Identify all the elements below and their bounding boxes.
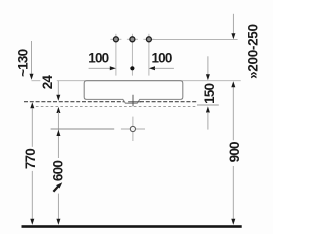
- drain crosshair vertical: [132, 117, 134, 141]
- svg-text:»200-250: »200-250: [245, 24, 260, 79]
- svg-text:770: 770: [23, 149, 38, 169]
- dimension 150 upper arrowhead: [206, 74, 210, 80]
- dimension 24 lower arrowhead: [56, 107, 60, 113]
- dimension ~130 shaft: [31, 41, 33, 75]
- svg-text:900: 900: [227, 142, 242, 162]
- dimension 770 shaft lower: [31, 171, 33, 220]
- dimension 100 right arrowhead: [149, 66, 155, 70]
- svg-text:100: 100: [88, 51, 108, 66]
- faucet hole centerline right: [148, 34, 150, 76]
- dimension 150 lower shaft: [207, 112, 209, 130]
- faucet level line: [152, 38, 238, 40]
- dimension 100 left arrowhead: [110, 66, 116, 70]
- dimension 150 upper shaft: [207, 56, 209, 74]
- adjustable height arrow symbol: [53, 187, 58, 192]
- drain circle: [130, 126, 135, 131]
- faucet hole circle middle: [130, 37, 135, 42]
- drain leader line: [51, 128, 115, 130]
- dimension 600 shaft: [57, 112, 59, 158]
- svg-text:24: 24: [40, 75, 55, 90]
- faucet hole centerline left: [115, 34, 117, 76]
- dimension 150 lower arrowhead: [206, 106, 210, 112]
- dimension 100 left shaft: [89, 67, 111, 69]
- dimension 900 shaft lower: [232, 166, 234, 220]
- countertop hidden line (long dashes): [24, 101, 197, 103]
- dimension 900 upper arrowhead: [231, 81, 235, 87]
- faucet hole cross tick left: [110, 38, 121, 40]
- dimension 770 upper arrowhead: [30, 102, 34, 108]
- rim reference line right part: [57, 80, 241, 82]
- dimension 150 bottom tick: [197, 104, 219, 106]
- dimension 200-250 shaft: [232, 14, 234, 34]
- washbasin profile outline: [84, 81, 183, 104]
- basin drain centerline vertical: [132, 95, 134, 106]
- dimension 200-250 arrowhead: [231, 33, 235, 39]
- drain crosshair horizontal: [121, 128, 145, 130]
- svg-text:150: 150: [202, 83, 217, 103]
- svg-text:600: 600: [51, 161, 66, 181]
- counter underside dashed line: [31, 105, 197, 107]
- svg-text:100: 100: [151, 51, 171, 66]
- dimension 600 upper arrowhead: [56, 130, 60, 136]
- faucet hole circle right: [146, 37, 151, 42]
- center reference dot: [130, 66, 134, 70]
- dimension 900 shaft upper: [232, 87, 234, 141]
- faucet hole centerline middle: [131, 34, 133, 76]
- floor line: [22, 225, 242, 228]
- basin drain centerline horizontal: [128, 101, 141, 103]
- rim reference line left part: [32, 80, 41, 82]
- faucet hole circle left: [113, 37, 118, 42]
- svg-text:~130: ~130: [16, 49, 31, 76]
- dimension 24 upper arrowhead: [56, 95, 60, 101]
- dimension 100 right shaft: [155, 67, 174, 69]
- dimension 900 lower arrowhead: [231, 219, 235, 225]
- dimension 770 shaft upper: [31, 108, 33, 146]
- dimension 770 lower arrowhead: [30, 219, 34, 225]
- dimension ~130 arrowhead: [30, 74, 34, 80]
- dimension 24 shaft: [57, 81, 59, 96]
- faucet hole cross tick right: [143, 38, 154, 40]
- faucet hole cross tick middle: [127, 38, 138, 40]
- dimension 600 lower arrowhead: [56, 219, 60, 225]
